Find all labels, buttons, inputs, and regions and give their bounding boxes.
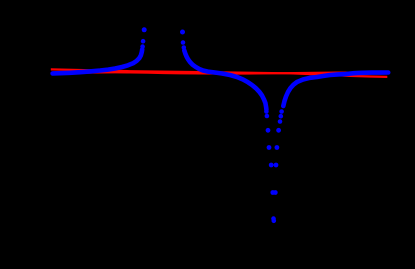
blue dots: first pole left column: [140, 44, 145, 49]
blue curve: left flat segment rising to first pole (left branch): [53, 50, 143, 74]
blue dots: first pole right column: [180, 30, 185, 35]
blue curve: descent from first pole through red line down to second pole (left branch): [184, 51, 266, 110]
red smooth curve: exact function, drawn first so blue points cover it at both ends: [51, 72, 387, 73]
red straight baseline line: [51, 69, 388, 77]
blue dots: second pole right column: [279, 109, 284, 114]
blue curve: recovery from second pole (right branch) to right edge: [283, 73, 388, 107]
blue dots: second pole left column: [264, 109, 269, 114]
